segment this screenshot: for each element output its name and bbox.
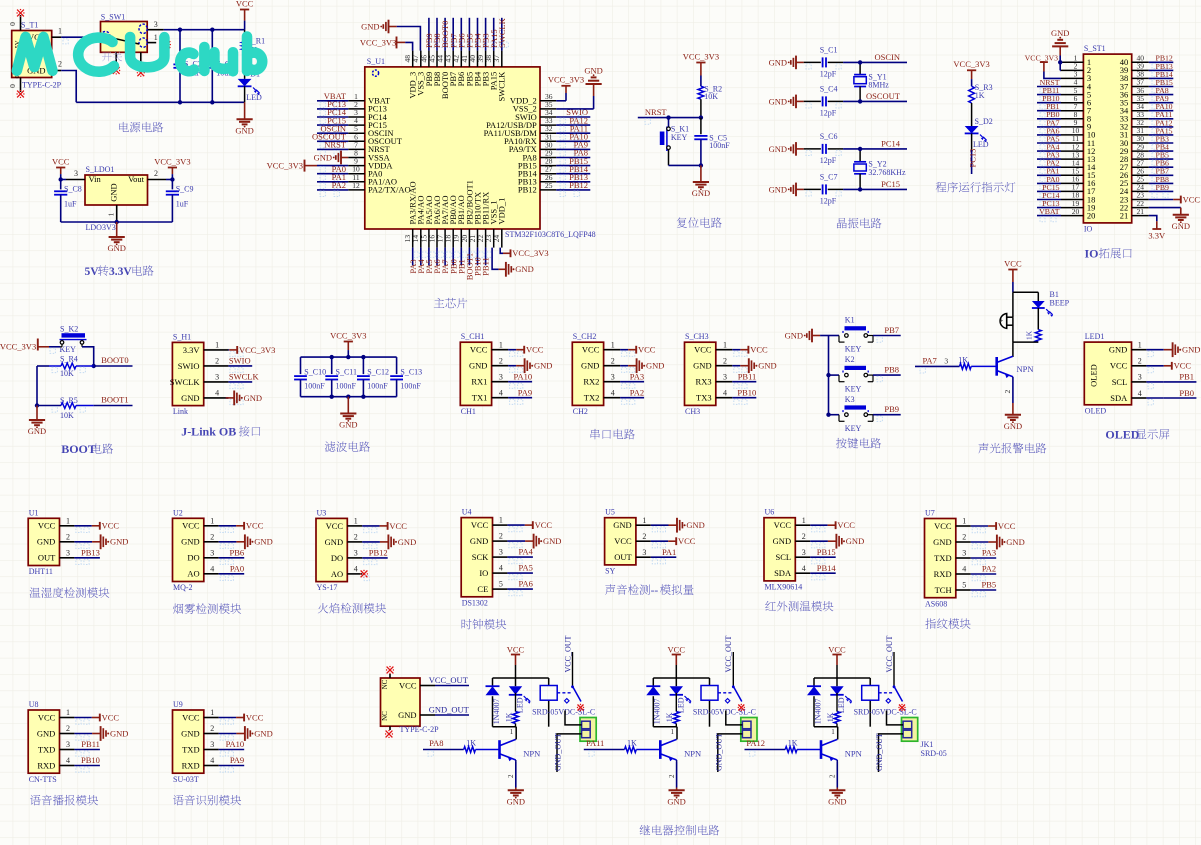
svg-text:PA3: PA3 xyxy=(982,548,996,558)
svg-text:SRD-05: SRD-05 xyxy=(921,749,947,758)
svg-text:KEY: KEY xyxy=(671,133,688,142)
wire/net label BOOT0 at U1 top pin 44 xyxy=(440,18,451,51)
svg-text:VCC_3V3: VCC_3V3 xyxy=(154,156,190,166)
capacitor S_C7 12pF with ground, net PC15 xyxy=(769,172,907,205)
svg-text:CE: CE xyxy=(477,584,488,594)
svg-text:LED: LED xyxy=(246,93,262,102)
svg-text:12pF: 12pF xyxy=(820,196,837,205)
power port VCC_3V3 at U1 pin9 VDDA xyxy=(267,160,349,173)
svg-text:GND: GND xyxy=(109,183,119,201)
wire/net label NRST at U1 left pin 7 xyxy=(317,140,348,156)
svg-text:VCC: VCC xyxy=(526,345,544,355)
wire/net label PA8 at U1 right pin 29 xyxy=(556,148,590,164)
ground GND at U1 pin23 VSS_1 xyxy=(492,248,534,277)
wire/net label PA9 at IO pin 35 xyxy=(1149,94,1174,109)
svg-text:SWCLK: SWCLK xyxy=(170,377,201,387)
wires to terminal block and GND_OUT xyxy=(875,711,903,773)
svg-text:GND: GND xyxy=(1006,537,1024,547)
svg-text:S_C10: S_C10 xyxy=(304,367,326,376)
svg-text:PA12: PA12 xyxy=(746,738,765,748)
wire/net label PB7 at IO pin 26 xyxy=(1149,167,1174,182)
capacitor S_C2 10uF xyxy=(173,30,201,103)
wire/net label PA2 at IO pin 14 xyxy=(1037,159,1061,174)
svg-text:U2: U2 xyxy=(173,508,183,517)
svg-text:GND: GND xyxy=(398,710,416,720)
svg-text:PA9: PA9 xyxy=(518,387,532,397)
transistor NPN relay driver xyxy=(500,727,541,788)
svg-text:20: 20 xyxy=(1087,210,1096,220)
svg-text:OSCOUT: OSCOUT xyxy=(866,91,901,101)
svg-text:KEY: KEY xyxy=(845,384,862,393)
svg-text:VCC: VCC xyxy=(507,644,525,654)
svg-text:PA4: PA4 xyxy=(519,547,534,557)
svg-text:S_T1: S_T1 xyxy=(21,21,38,30)
svg-text:VCC: VCC xyxy=(182,712,200,722)
section label 烟雾检测模块 xyxy=(173,604,183,614)
svg-text:3: 3 xyxy=(210,740,214,749)
pushbutton S_K2 KEY (BOOT) xyxy=(60,325,87,354)
ground GND at IO pins 1-2 xyxy=(1051,28,1069,71)
svg-text:1N4007: 1N4007 xyxy=(813,699,822,725)
pushbutton K1 KEY -> PB7 xyxy=(829,316,901,354)
svg-text:2: 2 xyxy=(210,532,214,541)
svg-text:GND: GND xyxy=(314,152,332,162)
svg-text:1K: 1K xyxy=(504,712,513,722)
svg-text:PA2: PA2 xyxy=(630,387,644,397)
svg-text:1K: 1K xyxy=(627,738,637,747)
svg-text:GND: GND xyxy=(1004,421,1022,431)
wire/net label OSCOUT at U1 left pin 6 xyxy=(312,132,348,148)
svg-text:37: 37 xyxy=(492,55,501,63)
svg-text:1: 1 xyxy=(723,340,727,349)
svg-text:S_C4: S_C4 xyxy=(820,84,838,93)
wire/net label PA3 at U1 bottom pin 13 xyxy=(408,248,420,274)
svg-text:U6: U6 xyxy=(765,508,775,517)
svg-text:3.3V: 3.3V xyxy=(183,345,201,355)
svg-text:SWCLK: SWCLK xyxy=(497,17,507,48)
svg-text:10K: 10K xyxy=(60,369,74,378)
wire/net label PB0 at U1 bottom pin 18 xyxy=(448,248,460,274)
svg-text:1K: 1K xyxy=(466,738,476,747)
svg-text:2: 2 xyxy=(962,533,966,542)
MCUclub logo xyxy=(17,37,262,72)
ground GND buttons xyxy=(785,329,829,343)
terminal block connector (green) xyxy=(902,718,947,759)
svg-text:VCC_3V3: VCC_3V3 xyxy=(548,74,584,84)
svg-text:VCC: VCC xyxy=(694,345,712,355)
svg-text:VCC_3V3: VCC_3V3 xyxy=(1025,53,1058,62)
wire/net label PA9 at U1 right pin 30 xyxy=(556,140,590,156)
svg-text:3: 3 xyxy=(499,372,503,381)
svg-text:VCC: VCC xyxy=(750,345,768,355)
section label 声音检测--模拟量 xyxy=(605,584,615,594)
svg-text:DS1302: DS1302 xyxy=(462,598,488,607)
relay unit driven by PA8: power port VCC xyxy=(507,644,525,678)
wire/net label PB10 at IO pin 6 xyxy=(1037,94,1061,109)
svg-text:1K: 1K xyxy=(958,355,968,364)
svg-text:4: 4 xyxy=(210,564,214,573)
transistor NPN relay driver xyxy=(821,727,862,788)
resistor S_R1 1K xyxy=(242,30,265,79)
svg-text:S_ST1: S_ST1 xyxy=(1084,44,1106,53)
svg-text:VCC_3V3: VCC_3V3 xyxy=(239,345,275,355)
wires to terminal block and GND_OUT xyxy=(714,711,742,773)
no-connect X on S_T1 top pin xyxy=(16,9,24,17)
section label 温湿度检测模块 xyxy=(30,587,41,597)
capacitor S_C5 100nF xyxy=(694,118,730,166)
svg-text:2: 2 xyxy=(642,532,646,541)
svg-text:K2: K2 xyxy=(845,355,855,364)
svg-text:GND_OUT: GND_OUT xyxy=(875,733,884,771)
svg-text:VCC: VCC xyxy=(837,520,855,530)
buzzer B1 BEEP xyxy=(999,290,1070,342)
wire/net label PB4 at U1 top pin 40 xyxy=(473,18,485,51)
svg-text:VCC_OUT: VCC_OUT xyxy=(724,635,733,672)
svg-text:PA7: PA7 xyxy=(922,356,936,366)
svg-text:S_C13: S_C13 xyxy=(400,367,422,376)
svg-text:2: 2 xyxy=(507,774,515,778)
section label 晶振电路 xyxy=(837,218,847,228)
svg-text:S_U1: S_U1 xyxy=(367,57,385,66)
svg-text:OUT: OUT xyxy=(614,552,632,562)
svg-text:TX3: TX3 xyxy=(696,393,712,403)
svg-text:NC: NC xyxy=(381,711,389,721)
svg-text:GND: GND xyxy=(181,728,199,738)
svg-text:PA11: PA11 xyxy=(586,738,604,748)
svg-text:GND: GND xyxy=(758,361,776,371)
svg-text:100nF: 100nF xyxy=(400,381,421,390)
svg-text:U5: U5 xyxy=(605,508,615,517)
svg-text:PC14: PC14 xyxy=(881,139,901,149)
svg-text:PA3: PA3 xyxy=(630,371,644,381)
svg-text:VCC: VCC xyxy=(828,644,846,654)
wire/net label PA7 at U1 bottom pin 17 xyxy=(440,248,451,274)
resistor S_R2 10K xyxy=(698,85,722,118)
svg-text:VCC_3V3: VCC_3V3 xyxy=(953,59,989,69)
svg-text:VCC: VCC xyxy=(326,521,344,531)
wire VCC to Vin xyxy=(59,177,67,181)
relay frame wiring xyxy=(814,678,870,727)
wire bottom rail of power circuit xyxy=(76,100,244,104)
svg-text:3: 3 xyxy=(802,548,806,557)
module U5 (SY) xyxy=(605,508,705,576)
wire/net label PA11 at U1 right pin 32 xyxy=(556,123,590,139)
svg-text:NPN: NPN xyxy=(523,749,540,759)
relay switch contact with VCC_OUT xyxy=(885,635,903,703)
svg-text:AO: AO xyxy=(187,569,199,579)
power port VCC at IO pin23 xyxy=(1149,194,1201,204)
svg-text:3: 3 xyxy=(499,548,503,557)
wire/net label PA15 at IO pin 31 xyxy=(1149,126,1174,141)
svg-text:MQ-2: MQ-2 xyxy=(173,583,193,592)
svg-text:20: 20 xyxy=(1072,207,1080,216)
svg-text:1: 1 xyxy=(215,341,219,350)
section label 语音播报模块 xyxy=(30,795,41,805)
wire/net label PC15 at U1 left pin 4 xyxy=(317,115,348,131)
svg-text:8MHz: 8MHz xyxy=(868,81,889,90)
display LED1 OLED xyxy=(1084,332,1131,415)
diode 1N4007 flyback xyxy=(646,686,661,724)
svg-text:4: 4 xyxy=(215,389,219,398)
svg-text:VCC_3V3: VCC_3V3 xyxy=(683,51,719,61)
svg-text:PB5: PB5 xyxy=(982,580,997,590)
svg-text:SY: SY xyxy=(605,567,615,576)
wire/net label PA10 at IO pin 34 xyxy=(1149,102,1174,117)
svg-text:3: 3 xyxy=(944,357,948,366)
svg-text:100nF: 100nF xyxy=(336,381,357,390)
svg-text:SU-03T: SU-03T xyxy=(173,775,199,784)
section label 火焰检测模块 xyxy=(318,603,328,613)
relay indicator LED xyxy=(670,686,692,713)
wire/net label PB14 at IO pin 38 xyxy=(1149,70,1174,85)
transistor NPN relay driver xyxy=(660,727,701,788)
svg-text:VCC: VCC xyxy=(470,345,488,355)
svg-text:GND: GND xyxy=(107,243,125,253)
pushbutton K3 KEY -> PB9 xyxy=(829,395,901,433)
svg-text:SWCLK: SWCLK xyxy=(229,372,260,382)
svg-text:LED: LED xyxy=(516,697,525,713)
wire LDO ground rail xyxy=(61,220,173,224)
svg-text:SCL: SCL xyxy=(776,552,792,562)
svg-text:S_K2: S_K2 xyxy=(60,325,78,334)
wire/net label VBAT at IO pin 20 xyxy=(1037,207,1061,222)
svg-text:2: 2 xyxy=(354,533,358,542)
svg-text:PB9: PB9 xyxy=(1156,183,1170,192)
LED S_D2 xyxy=(965,117,993,150)
relay frame wiring xyxy=(493,678,549,727)
svg-text:NC: NC xyxy=(381,679,389,689)
wire/net label PA4 at IO pin 12 xyxy=(1037,143,1061,158)
svg-text:VCC: VCC xyxy=(246,712,264,722)
svg-text:PA2/TX/AO: PA2/TX/AO xyxy=(368,185,411,195)
svg-text:RXD: RXD xyxy=(182,760,200,770)
svg-text:1: 1 xyxy=(611,340,615,349)
svg-text:SDA: SDA xyxy=(1110,393,1128,403)
svg-text:BOOT0: BOOT0 xyxy=(101,355,128,365)
wire/net label PA0 at IO pin 16 xyxy=(1037,175,1061,190)
section label 语音识别模块 xyxy=(173,795,184,805)
svg-text:GND: GND xyxy=(785,330,803,340)
capacitor S_C11 100nF xyxy=(325,357,357,397)
wire/net label NRST at IO pin 4 xyxy=(1037,78,1061,93)
main MCU S_U1 STM32F103C8T6_LQFP48 xyxy=(348,51,595,248)
module S_CH1 (CH1) xyxy=(460,332,552,416)
svg-text:3: 3 xyxy=(723,372,727,381)
capacitor S_C12 100nF xyxy=(357,357,389,397)
svg-text:100nF: 100nF xyxy=(709,141,730,150)
svg-text:LED: LED xyxy=(676,697,685,713)
svg-text:1: 1 xyxy=(58,26,62,35)
svg-text:3: 3 xyxy=(66,740,70,749)
svg-text:1N4007: 1N4007 xyxy=(653,699,662,725)
svg-text:S_C7: S_C7 xyxy=(820,172,838,181)
base resistor 1K with net PA12 xyxy=(745,738,822,756)
svg-text:2: 2 xyxy=(58,60,62,69)
svg-text:GND_OUT: GND_OUT xyxy=(429,705,470,715)
svg-text:2: 2 xyxy=(210,724,214,733)
pin 2 wire S_T1 GND down to bottom rail xyxy=(52,60,76,103)
svg-text:VCC: VCC xyxy=(668,644,686,654)
svg-text:SDA: SDA xyxy=(774,568,792,578)
svg-text:GND: GND xyxy=(646,361,664,371)
svg-text:VCC: VCC xyxy=(38,712,56,722)
ground GND filter xyxy=(339,397,357,430)
svg-text:Vout: Vout xyxy=(128,174,145,184)
svg-text:GND: GND xyxy=(769,184,787,194)
wire filter bottom rail xyxy=(301,395,397,399)
wire/net label BOOT0 xyxy=(52,355,133,372)
svg-text:2: 2 xyxy=(66,724,70,733)
svg-text:TXD: TXD xyxy=(934,553,951,563)
resistor S_R4 10K xyxy=(49,354,94,378)
svg-text:1: 1 xyxy=(210,516,214,525)
wire/net label PB9 at IO pin 24 xyxy=(1149,183,1174,198)
svg-text:VCC_3V3: VCC_3V3 xyxy=(360,37,396,47)
svg-text:RX1: RX1 xyxy=(471,377,487,387)
svg-text:VCC: VCC xyxy=(182,521,200,531)
wire/net label PB6 at U1 top pin 42 xyxy=(456,18,468,51)
relay switch contact with VCC_OUT xyxy=(563,635,581,703)
svg-text:VCC_OUT: VCC_OUT xyxy=(885,635,894,672)
svg-text:2: 2 xyxy=(723,356,727,365)
svg-text:GND: GND xyxy=(1051,28,1069,38)
svg-text:DO: DO xyxy=(187,553,199,563)
svg-text:TCH: TCH xyxy=(935,585,952,595)
svg-text:1: 1 xyxy=(831,728,835,736)
svg-text:RXD: RXD xyxy=(934,569,952,579)
svg-text:1K: 1K xyxy=(975,91,985,100)
wire/net label PC15 at IO pin 17 xyxy=(1037,183,1061,198)
wire/net label PB5 at U1 top pin 41 xyxy=(465,18,477,51)
svg-text:IO: IO xyxy=(1084,225,1093,234)
svg-text:J-Link OB: J-Link OB xyxy=(181,425,236,439)
svg-text:S_CH1: S_CH1 xyxy=(461,332,485,341)
svg-text:GND: GND xyxy=(543,536,561,546)
svg-text:PB12: PB12 xyxy=(369,548,388,558)
svg-text:U3: U3 xyxy=(317,508,327,517)
ground GND relay driver xyxy=(828,788,846,807)
svg-text:VCC: VCC xyxy=(389,521,407,531)
svg-text:1uF: 1uF xyxy=(176,200,189,209)
svg-text:1: 1 xyxy=(499,340,503,349)
svg-text:GND: GND xyxy=(398,537,416,547)
svg-text:VCC: VCC xyxy=(236,0,254,8)
svg-text:VCC: VCC xyxy=(1110,361,1128,371)
svg-text:2: 2 xyxy=(802,532,806,541)
power port VCC_3V3 at U1 pin36 VDD_2 xyxy=(548,74,584,101)
svg-text:Link: Link xyxy=(173,407,188,416)
svg-text:GND: GND xyxy=(339,420,357,430)
svg-text:PA8: PA8 xyxy=(429,738,443,748)
svg-text:S_SW1: S_SW1 xyxy=(101,12,125,21)
svg-text:GND: GND xyxy=(686,520,704,530)
svg-text:VCC_OUT: VCC_OUT xyxy=(563,635,572,672)
svg-text:GND: GND xyxy=(828,797,846,807)
header S_ST1 IO (40-pin) xyxy=(1061,44,1149,234)
svg-text:GND: GND xyxy=(1109,345,1127,355)
svg-text:PB14: PB14 xyxy=(817,563,837,573)
svg-text:IO: IO xyxy=(479,568,488,578)
svg-text:VCC: VCC xyxy=(1004,258,1022,268)
wire/net label PC14 at U1 left pin 3 xyxy=(317,107,348,123)
svg-text:GND: GND xyxy=(667,797,685,807)
svg-text:2: 2 xyxy=(215,357,219,366)
svg-text:3: 3 xyxy=(210,548,214,557)
svg-text:PA9: PA9 xyxy=(230,755,244,765)
svg-text:OLED: OLED xyxy=(1089,364,1099,387)
svg-text:PB11: PB11 xyxy=(81,739,100,749)
wire/net label PA12 at U1 right pin 33 xyxy=(556,115,590,131)
connector S_T1 TYPE-C-2P (power input) xyxy=(8,15,62,92)
svg-text:AS608: AS608 xyxy=(925,599,947,608)
svg-text:12: 12 xyxy=(352,181,360,190)
svg-text:2: 2 xyxy=(611,356,615,365)
svg-text:1K: 1K xyxy=(826,712,835,722)
svg-text:OSCIN: OSCIN xyxy=(874,52,900,62)
svg-text:TXD: TXD xyxy=(182,744,199,754)
svg-text:GND: GND xyxy=(235,125,253,135)
svg-text:24: 24 xyxy=(492,235,501,243)
svg-text:STM32F103C8T6_LQFP48: STM32F103C8T6_LQFP48 xyxy=(505,230,596,239)
svg-text:10K: 10K xyxy=(60,411,74,420)
svg-text:OUT: OUT xyxy=(38,553,56,563)
wire/net label PA11 at IO pin 33 xyxy=(1149,110,1174,125)
wire/net label PB6 at IO pin 27 xyxy=(1149,159,1174,174)
capacitor S_C6 12pF with ground, net PC14 xyxy=(769,132,907,165)
svg-text:VCC: VCC xyxy=(471,520,489,530)
svg-text:GND: GND xyxy=(37,537,55,547)
regulator S_LDO1 LDO3V3 xyxy=(66,165,166,232)
relay coil SRD-05VDC-SL-C xyxy=(532,686,595,717)
wire/net label PB15 at IO pin 37 xyxy=(1149,78,1174,93)
svg-text:JK1: JK1 xyxy=(921,740,934,749)
wire left trunk BOOT divider xyxy=(35,366,49,408)
svg-text:12pF: 12pF xyxy=(820,69,837,78)
svg-text:1: 1 xyxy=(802,516,806,525)
svg-text:+: + xyxy=(999,316,1003,325)
svg-text:LED: LED xyxy=(973,140,989,149)
svg-text:1: 1 xyxy=(1138,341,1142,350)
module U3 (YS-17) xyxy=(316,508,416,592)
ground GND at U1 pin8 VSSA xyxy=(314,151,349,165)
svg-text:NPN: NPN xyxy=(1017,364,1034,374)
terminal block connector (green) xyxy=(741,718,757,742)
svg-text:2: 2 xyxy=(1003,390,1012,394)
module U9 (SU-03T) xyxy=(173,700,273,784)
svg-text:GND: GND xyxy=(325,537,343,547)
svg-text:0: 0 xyxy=(8,84,17,88)
wire/net label BOOT1 xyxy=(52,395,133,412)
section label 声光报警电路 xyxy=(978,443,988,453)
svg-text:1: 1 xyxy=(499,516,503,525)
svg-text:S_C1: S_C1 xyxy=(820,45,838,54)
svg-text:3: 3 xyxy=(354,549,358,558)
svg-text:4: 4 xyxy=(210,756,214,765)
wire/net label OSCIN at U1 left pin 5 xyxy=(317,123,348,139)
svg-text:S_D2: S_D2 xyxy=(975,117,993,126)
resistor 1K for LED (vertical) xyxy=(504,693,518,727)
wire/net label PA4 at U1 bottom pin 14 xyxy=(416,248,428,274)
wire/net label NRST xyxy=(638,107,703,124)
svg-text:S_CH2: S_CH2 xyxy=(573,332,597,341)
relay unit driven by PA11: power port VCC xyxy=(668,644,686,678)
svg-text:5: 5 xyxy=(962,581,966,590)
resistor 1K for LED (vertical) xyxy=(826,693,840,727)
svg-text:CH3: CH3 xyxy=(685,407,700,416)
wire/net label PB7 at U1 top pin 43 xyxy=(448,18,460,51)
svg-text:VCC_3V3: VCC_3V3 xyxy=(512,248,548,258)
svg-text:U4: U4 xyxy=(462,508,472,517)
